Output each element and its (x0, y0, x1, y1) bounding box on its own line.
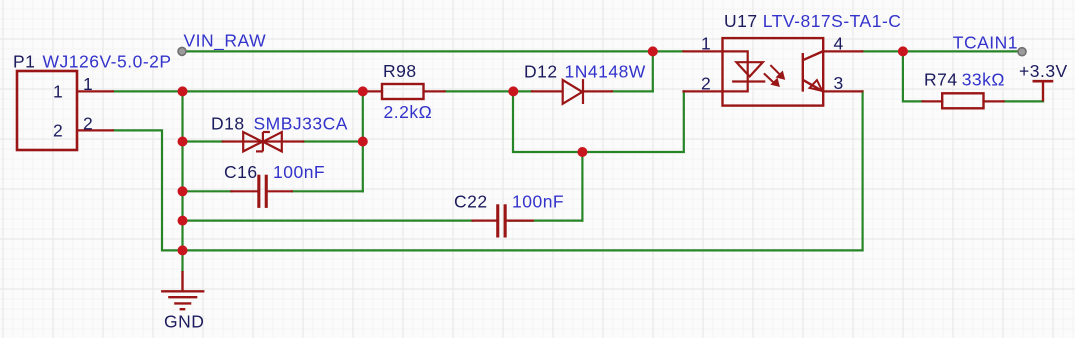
net port dots (gray) (178, 47, 186, 55)
R98 leads (363, 90, 382, 92)
wire pin2 row (113, 91, 863, 250)
U17 pin1 lead (684, 50, 723, 52)
D18 through line (223, 140, 303, 142)
node D18-left (178, 137, 188, 147)
svg-text:LTV-817S-TA1-C: LTV-817S-TA1-C (763, 11, 902, 31)
resistor R74 (942, 93, 983, 108)
ground (161, 271, 204, 309)
node GND (178, 245, 188, 255)
wire pin4 to TCAIN1 (862, 50, 1022, 52)
svg-text:1: 1 (701, 34, 711, 54)
svg-text:U17: U17 (724, 11, 758, 31)
svg-text:1N4148W: 1N4148W (565, 62, 646, 82)
U17 emission arrows (764, 65, 785, 87)
wire C22 left (183, 220, 473, 222)
+3.3V power symbol (1033, 81, 1054, 101)
P1 pin1 stub (78, 90, 113, 92)
wire C22 right riser (581, 152, 583, 221)
svg-text:R98: R98 (383, 61, 417, 81)
U17 pin2 lead (684, 90, 723, 92)
wire R98 to D12 (445, 90, 532, 92)
optocoupler U17 box (723, 38, 824, 106)
U17 LED (723, 51, 766, 91)
U17 pin3 lead (823, 90, 862, 92)
svg-text:2: 2 (701, 74, 711, 94)
svg-text:2.2kΩ: 2.2kΩ (384, 102, 433, 122)
svg-text:33kΩ: 33kΩ (962, 70, 1005, 90)
svg-text:C16: C16 (224, 162, 258, 182)
wire x363 vertical (362, 91, 364, 191)
svg-text:3: 3 (834, 73, 844, 93)
svg-text:1: 1 (53, 82, 63, 102)
wire D18 left (183, 140, 223, 142)
R74 leads (923, 100, 943, 102)
wire pin1 row (113, 90, 363, 92)
wire R74 drop (903, 51, 923, 101)
wire C16 left (183, 190, 232, 192)
svg-text:4: 4 (834, 34, 844, 54)
resistor R98 (382, 84, 424, 99)
C22 leads (473, 220, 497, 222)
svg-text:+3.3V: +3.3V (1019, 61, 1068, 81)
node D12-anode (508, 86, 518, 96)
wire D18 right (303, 140, 363, 142)
node D18-right (358, 137, 368, 147)
capacitor C16 (257, 175, 268, 208)
pin texts (53, 34, 844, 141)
svg-text:GND: GND (164, 311, 204, 331)
U17 phototransistor (803, 51, 823, 91)
wire VIN_RAW top (182, 50, 684, 52)
svg-text:C22: C22 (454, 192, 488, 212)
svg-text:WJ126V-5.0-2P: WJ126V-5.0-2P (43, 52, 172, 72)
node top-wire (648, 46, 658, 56)
U17 pin4 lead (823, 50, 862, 52)
node C16-left (178, 186, 188, 196)
wire C16 right (292, 190, 363, 192)
svg-text:1: 1 (83, 74, 93, 94)
C16 leads (231, 190, 257, 192)
svg-text:D18: D18 (211, 113, 245, 133)
svg-text:VIN_RAW: VIN_RAW (184, 30, 267, 51)
component leads (red) (78, 51, 1004, 220)
svg-text:100nF: 100nF (273, 162, 325, 182)
capacitor C22 (496, 204, 507, 237)
node TCAIN1 (898, 46, 908, 56)
svg-text:100nF: 100nF (512, 192, 564, 212)
wire top junction drop (652, 51, 654, 91)
wire node mid vertical left (513, 91, 684, 152)
diode D12 (563, 79, 583, 104)
svg-text:TCAIN1: TCAIN1 (953, 32, 1018, 52)
wire C22 right (509, 220, 582, 222)
node pin1-left (178, 86, 188, 96)
svg-text:D12: D12 (524, 62, 558, 82)
TVS diode D18 (243, 132, 282, 151)
svg-text:2: 2 (53, 121, 63, 141)
svg-text:2: 2 (83, 113, 93, 133)
svg-text:R74: R74 (924, 70, 958, 90)
node R98-left (358, 86, 368, 96)
P1 pin2 stub (78, 129, 113, 131)
connector P1 (17, 71, 77, 150)
node C22-left (178, 216, 188, 226)
node C22-right (577, 147, 587, 157)
D12 leads (532, 90, 563, 92)
wire R74 right to 3.3V (1004, 100, 1044, 102)
wire left bus vertical (181, 91, 183, 271)
wire D12 cathode to vertical (612, 90, 653, 92)
svg-text:SMBJ33CA: SMBJ33CA (254, 113, 348, 133)
svg-text:P1: P1 (13, 52, 35, 72)
